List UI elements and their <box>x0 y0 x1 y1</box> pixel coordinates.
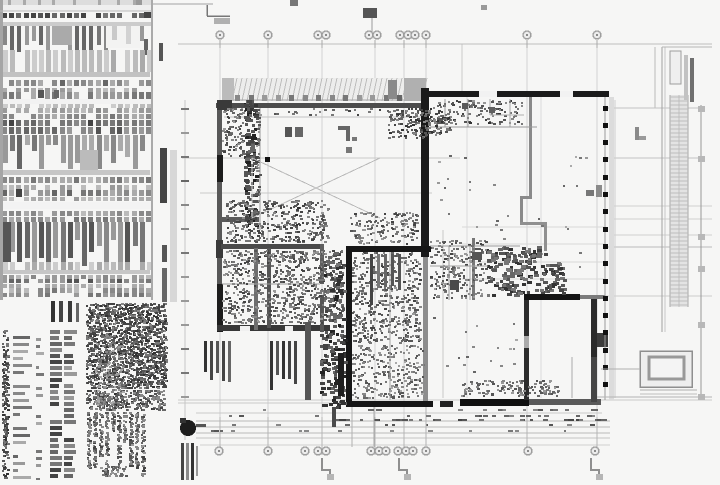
second interior partition <box>267 248 271 328</box>
left wing bottom wall <box>217 325 330 331</box>
left exterior wall <box>216 103 223 332</box>
top wall right wing <box>429 91 609 97</box>
pergola hatch band <box>222 78 427 101</box>
room label TB <box>285 127 303 137</box>
note stack column <box>50 330 77 478</box>
main cross wall <box>421 88 429 402</box>
entry detail noise <box>222 108 246 157</box>
hall vertical wall <box>524 300 529 400</box>
below-plan wall stub <box>332 407 426 447</box>
north arrow symbol <box>180 418 206 436</box>
table header top line <box>0 10 152 12</box>
service divider line <box>389 252 391 400</box>
inner face ticks <box>227 108 421 116</box>
gray column right of table <box>170 150 177 302</box>
column dot <box>265 157 270 162</box>
upper small wall <box>221 217 259 222</box>
notes paragraph block 1 <box>86 303 168 389</box>
mid rooms noise <box>352 252 422 344</box>
left dimension chain <box>181 100 189 440</box>
corner column top-left <box>217 100 232 110</box>
dark bar C right of table <box>162 245 167 262</box>
service block top wall <box>346 246 431 252</box>
door arcs noise <box>350 212 419 245</box>
right wing room partitions <box>437 99 524 127</box>
corridor wall edge line <box>259 108 261 230</box>
hall partition wall thick <box>524 294 605 300</box>
schedule table 1 <box>0 0 152 119</box>
horizontal reference lines <box>178 44 712 413</box>
pool <box>640 351 692 387</box>
inner face line top wall <box>224 116 424 118</box>
level marker hooks <box>322 458 603 480</box>
small mark below L <box>346 147 352 153</box>
interior wall column stack <box>244 100 260 227</box>
left margin text column <box>2 330 10 479</box>
right wing room line <box>430 126 537 128</box>
corridor noise upper <box>324 252 347 328</box>
stair core black bar <box>338 353 344 396</box>
left wing east wall <box>320 244 324 332</box>
bottom wall right wing <box>440 399 601 407</box>
top tiny mark 2 <box>481 5 487 10</box>
x-braced room diagonals <box>252 158 380 218</box>
right side reference lines <box>462 108 712 296</box>
shower dense block 2 <box>545 262 567 295</box>
service block bottom wall <box>346 401 433 407</box>
interior partition <box>254 248 258 330</box>
notes paragraph block 1b <box>86 390 166 411</box>
lower room divider line <box>222 283 320 285</box>
stair bars west <box>204 341 231 382</box>
upper mid cluster <box>387 108 452 139</box>
right wing upper rooms noise <box>432 100 523 125</box>
room label L <box>338 126 357 141</box>
bath detail noise <box>226 200 330 243</box>
schedule table 3 <box>0 211 152 297</box>
dark bar B right of table <box>160 148 167 203</box>
small mark right of plan <box>586 185 602 197</box>
top small mark <box>290 0 298 6</box>
dark post bar <box>305 322 311 400</box>
legend bars <box>181 443 198 480</box>
mid vertical streaks <box>370 254 401 305</box>
right wing scattered marks <box>436 155 588 285</box>
bottom dimension chains <box>196 409 610 447</box>
top wall left wing <box>216 103 429 108</box>
table left border <box>0 0 3 300</box>
right wing east wall <box>591 299 608 402</box>
service block left wall <box>346 246 352 407</box>
stair core noise <box>320 330 348 409</box>
left wing lower rooms noise <box>222 250 345 324</box>
table right border <box>151 0 153 300</box>
bottom grid bubbles <box>215 447 599 455</box>
shower dense block <box>486 246 548 297</box>
lower right room marks <box>433 317 518 373</box>
top-left leader note <box>207 5 230 24</box>
interior grid lines right wing <box>443 44 655 398</box>
notes paragraph block 2 <box>87 412 146 477</box>
small room wall <box>472 238 475 300</box>
east property line <box>698 105 705 400</box>
boundary line east <box>662 47 712 332</box>
column grid vertical lines <box>220 40 597 455</box>
top grid bubbles <box>216 31 601 39</box>
mid rooms noise 2 <box>352 345 425 399</box>
top reference line <box>153 3 213 5</box>
hall noise <box>430 240 488 299</box>
east fence mark <box>635 127 646 140</box>
dim text marks mid <box>229 409 594 417</box>
note small block <box>95 340 125 407</box>
east curtain wall with mullions <box>603 97 615 400</box>
left wing mid wall <box>221 244 324 249</box>
top mid leader note <box>363 8 377 33</box>
dark bar A right of table <box>159 43 163 61</box>
kitchen strip noise <box>256 109 262 195</box>
north stair rect <box>670 51 694 102</box>
dark list bars <box>51 301 79 322</box>
dark bar D right of table <box>162 268 167 302</box>
hall room walls <box>430 246 520 300</box>
numbered list column <box>13 336 44 481</box>
below-wall rooms noise <box>461 380 560 397</box>
retaining wall ladder hatch <box>670 95 688 307</box>
zigzag corridor wall <box>520 97 547 251</box>
top dimension line <box>178 40 712 48</box>
schedule table 2 <box>0 120 152 209</box>
stair bars east <box>270 341 297 390</box>
pool outlet lines <box>572 357 712 398</box>
